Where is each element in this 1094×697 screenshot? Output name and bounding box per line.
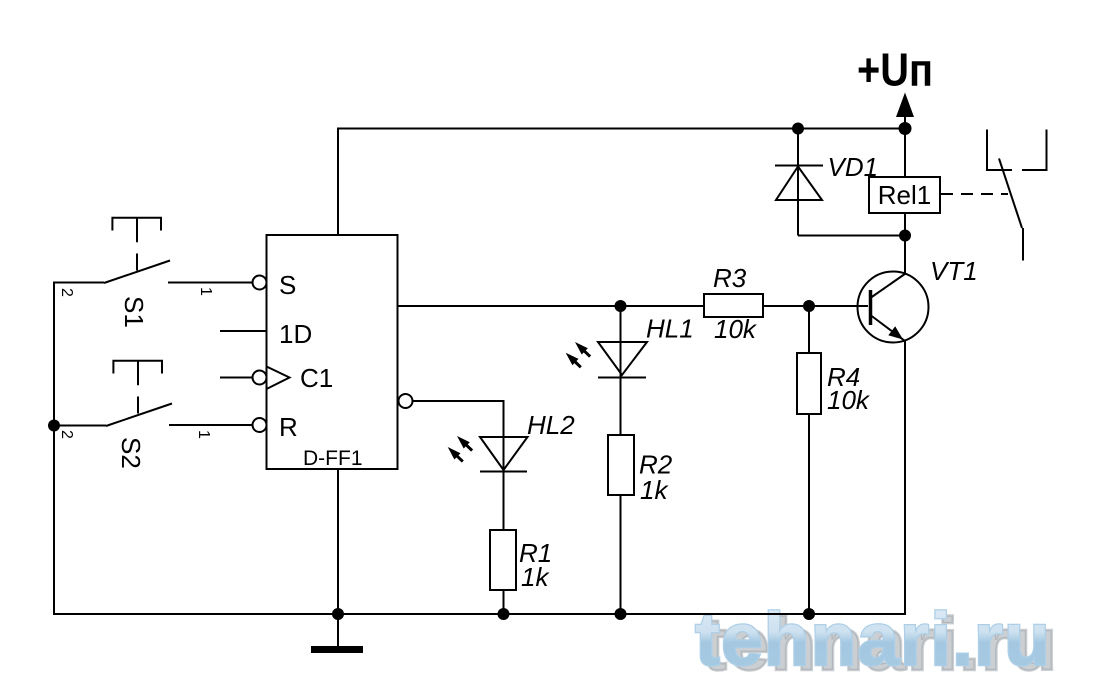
LED HL1 cathode bar [598,377,646,379]
wire R4 to rail [808,414,810,614]
svg-text:1D: 1D [279,319,312,349]
diode VD1 cathode bar [775,165,823,167]
wire Rel1 top stem [904,129,906,178]
switch S1 left wire [54,282,104,284]
LED HL2 cathode bar [480,471,527,473]
wire VD1 top stem [797,129,799,236]
pin 1D stub wire [220,330,267,332]
watermark tehnari.ru [694,601,696,603]
transistor VT1 collector line [871,274,906,298]
svg-text:C1: C1 [300,363,333,393]
svg-text:1k: 1k [521,562,550,592]
wire R2 to rail [620,495,622,614]
switch S1 lever [104,261,170,284]
junction S2 left [48,420,60,432]
resistor R3 [704,294,763,317]
svg-text:VT1: VT1 [930,256,978,286]
svg-text:R3: R3 [713,263,747,293]
pin C1 bubble [253,371,267,385]
wire D-FF top stem [337,129,339,236]
LED HL2 triangle [480,437,528,470]
svg-text:+Uп: +Uп [857,44,933,96]
resistor R1 [490,530,516,590]
relay contact lever [999,159,1022,229]
junction Rel1 bottom [899,230,911,242]
junction VD1 top [792,123,804,135]
LED HL2 arrows [448,436,472,462]
wire VD1 to Rel1 bottom [798,235,905,237]
junction supply node [899,122,912,135]
junction R4 bottom [803,608,815,620]
relay contact right bracket [1022,130,1047,171]
wire emitter to rail [904,341,906,615]
wire Rel1 bottom stem [904,213,906,236]
LED HL1 triangle [598,342,647,375]
switch S2 actuator [113,361,162,414]
svg-text:HL2: HL2 [527,410,575,440]
relay contact lower wire [1022,228,1024,261]
junction HL1 branch [615,300,627,312]
transistor VT1 emitter line [871,316,905,342]
svg-text:1: 1 [195,430,212,439]
switch S1 actuator [112,218,161,271]
svg-text:HL1: HL1 [646,314,694,344]
svg-text:S2: S2 [116,437,146,469]
relay coil Rel1 box [869,177,940,213]
svg-text:D-FF1: D-FF1 [303,447,363,470]
diode VD1 triangle [776,167,822,201]
svg-text:10k: 10k [827,385,871,415]
svg-text:1k: 1k [640,475,669,505]
wire D-FF bottom stem [337,469,339,614]
pin inverted-Q bubble [399,394,413,408]
svg-text:S1: S1 [119,296,149,328]
pin R wire [169,424,253,426]
pin C1 dynamic-input triangle [267,367,290,390]
pin R bubble [253,418,267,432]
wire inverted-Q to HL2 [413,401,504,471]
transistor VT1 circle [858,272,929,343]
wire Q output [398,305,705,307]
junction R1 bottom [498,608,510,620]
svg-text:10k: 10k [714,314,758,344]
svg-text:Rel1: Rel1 [878,180,931,210]
svg-text:S: S [279,270,296,300]
svg-text:2: 2 [58,430,75,439]
supply arrow head [896,93,914,118]
wire R4 top [808,306,810,353]
supply arrow stem [904,110,906,129]
svg-text:R: R [279,412,298,442]
relay contact left bracket [987,130,1012,171]
wire collector stem [904,236,906,275]
switch S2 lever [106,404,172,427]
pin S wire [168,282,253,284]
switch S2 left wire [54,425,106,427]
wire VD1 bottom stem [797,200,799,236]
wire HL2 to R1 [503,472,505,531]
wire R1 to rail [503,590,505,614]
pin C1 stub wire [220,377,253,379]
wire bottom rail [53,613,905,615]
ground bar [311,646,363,653]
junction R2 bottom [615,608,627,620]
wire HL1 top [620,306,622,378]
wire left rail [53,282,55,616]
transistor VT1 base bar [869,290,873,325]
LED HL1 arrows [566,342,590,367]
wire top rail [337,128,905,130]
junction R4 branch [803,300,815,312]
svg-text:1: 1 [197,287,214,296]
wire HL1 to R2 [620,378,622,436]
wire R3 to base [763,305,868,307]
ground stem [337,614,339,647]
resistor R4 [797,353,821,414]
dashed link Rel1 to contact [941,193,1008,195]
pin S bubble [253,276,267,290]
junction ground node [332,608,344,620]
resistor R2 [608,435,634,495]
transistor VT1 emitter arrow [888,326,903,339]
D flip-flop D-FF1 box [267,235,398,469]
svg-text:2: 2 [58,288,75,297]
